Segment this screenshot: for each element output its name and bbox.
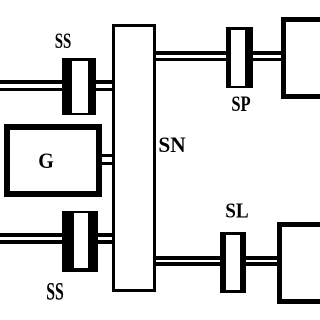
label SP bbox=[231, 93, 250, 115]
wire bottom-right shaft upper line bbox=[154, 256, 278, 260]
coupling SS (top-left) inner slot bbox=[72, 61, 88, 113]
label SN bbox=[158, 134, 185, 156]
coupling SL (bottom-right) body bbox=[220, 232, 246, 294]
label G bbox=[38, 150, 54, 172]
label SL bbox=[225, 200, 248, 222]
wire bottom-left shaft upper line bbox=[0, 233, 114, 237]
coupling SS (bottom-left) inner slot bbox=[74, 213, 88, 268]
propulsion load box bottom-right bbox=[277, 222, 320, 304]
label SS bottom bbox=[46, 279, 64, 304]
propulsion load box top-right bbox=[281, 17, 320, 99]
gearbox SN box bbox=[112, 24, 156, 292]
coupling SS (top-left) body bbox=[62, 58, 96, 115]
coupling SP (top-right) body bbox=[226, 27, 253, 88]
wire top-left shaft upper line bbox=[0, 80, 114, 84]
wire top-right shaft lower line bbox=[154, 58, 282, 62]
generator G box bbox=[4, 124, 102, 197]
label SS top bbox=[55, 30, 72, 53]
wire top-left shaft lower line bbox=[0, 88, 114, 92]
coupling SS (bottom-left) body bbox=[62, 211, 98, 272]
wire bottom-left shaft lower line bbox=[0, 240, 114, 244]
coupling SP (top-right) inner slot bbox=[231, 30, 244, 86]
wire generator-to-gearbox connector lower line bbox=[100, 162, 114, 165]
wire generator-to-gearbox connector upper line bbox=[100, 154, 114, 157]
wire top-right shaft upper line bbox=[154, 51, 282, 55]
coupling SL (bottom-right) inner slot bbox=[226, 235, 240, 291]
wire bottom-right shaft lower line bbox=[154, 262, 278, 266]
